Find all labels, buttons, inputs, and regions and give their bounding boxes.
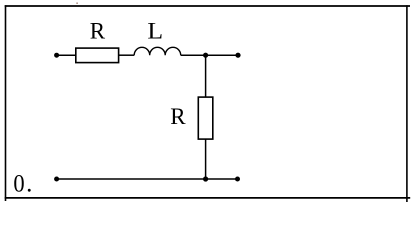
wire: inductor to right top terminal [181,54,238,56]
wire: left terminal to resistor R1 [57,54,76,56]
frame top border [5,5,410,7]
frame left border [5,5,7,201]
svg-text:0: 0 [13,171,24,198]
node: right top terminal [235,53,240,58]
node: left bottom terminal [54,177,59,182]
svg-text:R: R [170,104,186,129]
node: left top terminal [54,53,59,58]
svg-text:L: L [147,19,163,44]
wire: bottom rail [57,178,238,180]
node: right bottom terminal [235,177,240,182]
svg-text:R: R [90,18,106,43]
frame right border [406,5,408,202]
resistor R (vertical, shunt) [198,97,213,139]
wire: resistor R1 to inductor L [119,54,135,56]
speck artifact above top border [76,3,78,4]
resistor R (horizontal, series) [76,48,119,63]
wire: top junction down to resistor R2 [205,55,207,97]
inductor L [134,47,181,55]
node: bottom junction [203,176,208,181]
wire: resistor R2 down to bottom rail [205,139,207,179]
svg-text:.: . [26,171,32,198]
node: top junction [203,53,208,58]
frame bottom border [5,197,411,199]
